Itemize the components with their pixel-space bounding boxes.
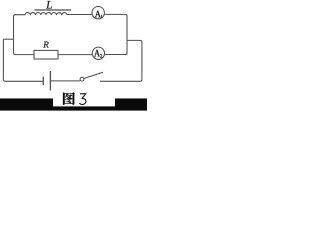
label R [43,42,48,48]
caption digit 3 [80,94,86,105]
wire: middle connector to outer-right vertical [127,40,142,79]
ammeter A1 subscript 1 [101,15,102,18]
wire: A1 to inner-right vertical and down [104,14,127,54]
wire: battery to switch [51,80,81,82]
inductor core bar [35,9,72,11]
caption black bar [0,98,147,110]
wire: top-left corner from inner-left vertical to inductor [14,15,26,40]
caption white box [53,91,115,106]
wire: resistor to ammeter A2 [58,54,92,56]
wire: R-branch left corner [14,39,35,54]
switch pivot circle [80,77,84,81]
inductor L coil [25,13,67,15]
wire: switch fixed contact to outer-right vertical [100,79,142,81]
wire: coil to ammeter A1 [67,14,92,16]
ammeter A1 letter [95,11,101,18]
ammeter A2 subscript 2 [100,54,102,57]
wire: junction from outer-left to inner-left vertical [3,38,13,40]
ammeter A2 letter [94,50,100,57]
ammeter A2 circle [92,47,104,59]
battery long plate [49,71,51,90]
resistor R box [34,50,58,59]
label L [46,1,52,9]
caption character 图 [63,92,75,105]
wire: outer-left vertical and bottom to battery [3,39,43,81]
ammeter A1 circle [92,7,104,19]
battery short plate [42,77,44,85]
wire: A2 to inner-right vertical [105,53,127,55]
switch lever [84,72,103,78]
